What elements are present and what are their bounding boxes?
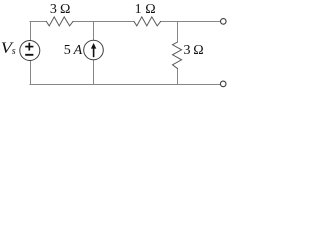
wire right branch upper: [177, 22, 179, 42]
wire top rail left segment: [30, 21, 46, 23]
Vs minus sign: [25, 54, 33, 56]
svg-text:A: A: [73, 43, 83, 58]
wire left rail lower: [30, 61, 32, 85]
svg-text:5: 5: [64, 43, 71, 58]
resistor R1 3ohm zigzag: [46, 17, 73, 26]
svg-text:Ω: Ω: [60, 2, 70, 17]
svg-text:3: 3: [50, 2, 57, 17]
svg-text:Ω: Ω: [193, 43, 203, 58]
wire current source branch upper: [93, 22, 95, 40]
I1 arrow head: [91, 43, 96, 49]
source Vs circle: [20, 41, 40, 61]
wire current source branch lower: [93, 60, 95, 85]
wire top rail middle segment: [73, 21, 134, 23]
terminal top right: [221, 19, 227, 25]
svg-text:1: 1: [135, 2, 142, 17]
wire top rail right segment: [161, 21, 221, 23]
svg-text:Ω: Ω: [145, 2, 155, 17]
svg-text:3: 3: [184, 43, 191, 58]
wire bottom rail: [30, 84, 220, 86]
wire right branch lower: [177, 69, 179, 85]
resistor R2 1ohm zigzag: [134, 17, 161, 26]
I1 arrow shaft: [93, 48, 95, 58]
resistor R3 3ohm vertical zigzag: [173, 42, 182, 69]
source I1 circle: [84, 40, 104, 60]
svg-text:s: s: [12, 46, 16, 57]
wire left rail upper: [30, 22, 32, 41]
terminal bottom right: [220, 81, 226, 87]
Vs plus sign: [25, 43, 33, 51]
